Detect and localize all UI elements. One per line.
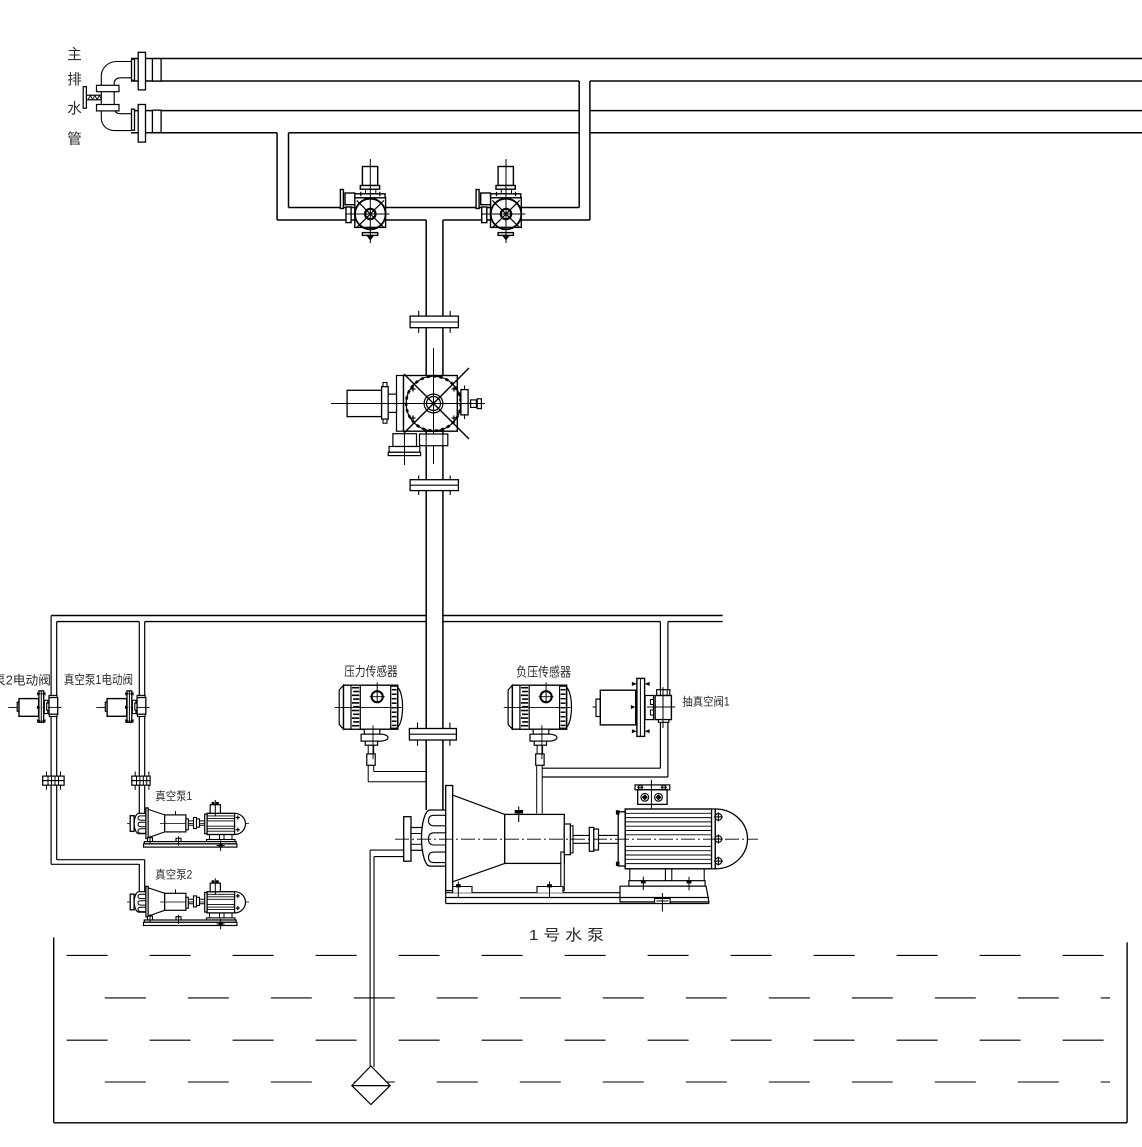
pipe: lower main drain pipe bbox=[131, 111, 1142, 133]
water surface dashes row 1 bbox=[67, 955, 1110, 1082]
label: main drain pipe (vertical text) bbox=[67, 47, 82, 149]
foot valve (diamond strainer) bbox=[352, 1066, 390, 1105]
pressure sensor 压力传感器 bbox=[335, 682, 403, 765]
svg-text:压力传感器: 压力传感器 bbox=[344, 664, 398, 679]
electric valve 泵2电动阀 bbox=[8, 691, 61, 723]
electric valve 抽真空阀1 bbox=[593, 678, 676, 736]
vacuum pump 2 bbox=[127, 878, 249, 929]
motorized valve V2 bbox=[476, 159, 525, 243]
flange on pipe A bbox=[43, 772, 64, 790]
valve header pipe bbox=[277, 208, 590, 221]
flange F2 under main valve bbox=[410, 476, 458, 496]
svg-text:抽真空阀1: 抽真空阀1 bbox=[682, 695, 729, 709]
svg-text:真空泵2: 真空泵2 bbox=[155, 868, 192, 882]
flange F1 on main vertical pipe bbox=[410, 311, 458, 333]
water tank walls bbox=[54, 937, 1127, 1122]
pipe: upper main drain pipe bbox=[131, 59, 1142, 82]
svg-text:管: 管 bbox=[67, 131, 82, 148]
vacuum pump 1 bbox=[127, 800, 249, 851]
return bend (U) connecting both mains bbox=[101, 62, 131, 131]
vacuum header pipe (room line) bbox=[51, 616, 723, 622]
flange set on lower main bbox=[132, 105, 162, 143]
flanges on bend tap bbox=[97, 85, 120, 91]
svg-text:1 号 水 泵: 1 号 水 泵 bbox=[529, 927, 604, 944]
main vertical pipe bbox=[426, 220, 443, 810]
vacuum pipe B (to pump 1) bbox=[139, 622, 144, 814]
svg-text:负压传感器: 负压传感器 bbox=[516, 665, 571, 680]
svg-text:水: 水 bbox=[67, 101, 82, 118]
main butterfly valve with actuator bbox=[331, 348, 485, 465]
svg-text:真空泵1: 真空泵1 bbox=[155, 789, 192, 803]
vacuum sensor 负压传感器 bbox=[504, 682, 572, 765]
connector pipe riser to vacuum sensor line bbox=[542, 768, 668, 777]
vacuum pipe A (to pump 2) bbox=[51, 616, 145, 892]
flange F3 on main pipe above pump bbox=[409, 723, 456, 746]
drain valve with T-handle bbox=[83, 87, 101, 109]
vacuum sensor pipe down to pump casing bbox=[537, 765, 543, 813]
svg-text:泵2电动阀: 泵2电动阀 bbox=[0, 674, 51, 688]
motorized valve V1 bbox=[340, 159, 389, 243]
flange on pipe B bbox=[132, 772, 150, 790]
drop pipe from lower main to valve header bbox=[277, 133, 288, 220]
svg-text:真空泵1电动阀: 真空泵1电动阀 bbox=[64, 673, 133, 687]
riser pipe to vacuum valve bbox=[660, 622, 668, 777]
main water pump 1号水泵 bbox=[395, 780, 758, 912]
tank suction pipe from pump bbox=[370, 850, 404, 1067]
svg-text:主: 主 bbox=[67, 47, 82, 64]
electric valve 真空泵1电动阀 bbox=[96, 691, 149, 723]
drop pipe from upper main to valve header bbox=[579, 81, 590, 220]
pressure sensor pipe to main pipe bbox=[368, 765, 426, 782]
flange set on upper main bbox=[132, 52, 162, 90]
svg-text:排: 排 bbox=[67, 72, 82, 89]
